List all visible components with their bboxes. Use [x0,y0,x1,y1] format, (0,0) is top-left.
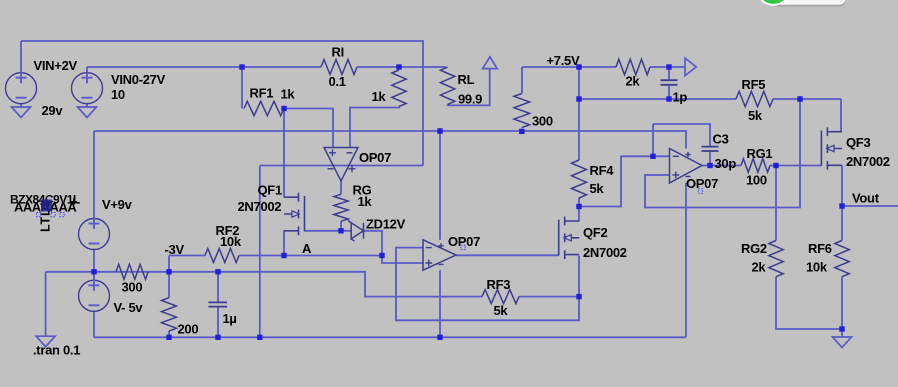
junction (842,206) [839,203,844,208]
svg-text:1k: 1k [358,194,373,209]
svg-text:RF5: RF5 [742,77,766,92]
ground under V1 [12,107,31,118]
wire RG node to zener [341,230,351,232]
svg-text:0.1: 0.1 [329,74,346,89]
svg-text:RF4: RF4 [590,163,615,178]
svg-text:A: A [302,241,312,256]
svg-text:VIN0-27V: VIN0-27V [111,72,166,87]
junction (579,206.5) [576,204,581,209]
wire net V- rail bottom [94,336,686,338]
wire V3-V4 junction leads [93,250,95,281]
wire x579 column [578,67,580,160]
wire RG2 bottom to gnd node [776,277,842,329]
svg-text:OP07: OP07 [359,150,391,165]
junction (341,230.8) [338,228,343,233]
wire net Vin2 rail y67 [87,66,446,68]
resistor RF6 10k [835,241,849,277]
junction (284,255.5) [281,253,286,258]
wire opamp2 V+ drop [439,131,441,240]
svg-text:29v: 29v [42,103,64,118]
wire net -3V rail y272 [46,272,482,297]
svg-text:.tran 0.1: .tran 0.1 [33,343,80,358]
wire QF1 drain riser [283,109,285,198]
resistor RF3 5k [482,290,519,304]
wire net V+ rail (VIN+2V) top [21,41,423,166]
wire QF2 drain node to opamp3 -in [579,156,670,221]
svg-text:200: 200 [178,322,199,337]
svg-text:QF3: QF3 [846,135,870,150]
junction (284,108.5) [281,106,286,111]
op-amp U2 OP07 [423,234,480,270]
svg-text:10k: 10k [220,234,242,249]
svg-text:5k: 5k [494,303,509,318]
junction (218,337.3) [215,335,220,340]
svg-text:RG2: RG2 [741,241,767,256]
svg-text:+7.5V: +7.5V [547,53,580,68]
wire opamp2 feedback loop [396,248,579,321]
resistor RF5 5k [736,91,773,106]
resistor RG2 2k [769,241,783,277]
port arrow up (RL) [483,57,498,69]
voltage source V1 VIN+2V 29v [6,72,37,104]
junction (579,67) [576,64,581,69]
capacitor C3 30p [702,147,719,151]
resistor RG1 100 [741,159,770,173]
wire 1p cap leads [668,67,670,99]
svg-text:2k: 2k [626,74,641,89]
capacitor 1u [208,302,227,306]
svg-text:QF1: QF1 [258,183,282,198]
wire 200 leads [168,272,170,338]
svg-text:5k: 5k [748,108,763,123]
svg-text:V- 5v: V- 5v [114,300,144,315]
svg-text:VIN+2V: VIN+2V [34,58,78,73]
svg-text:Vout: Vout [852,191,880,206]
wire V1 bottom lead [20,104,22,107]
wire RF6 bottom lead [841,277,843,329]
wire -3V corner [168,256,170,272]
wire 1k bottom to opamp1 -in [350,107,399,148]
svg-text:2N7002: 2N7002 [238,199,282,214]
wire opamp1 out lead [340,181,342,194]
svg-text:1µ: 1µ [223,311,237,326]
svg-text:C3: C3 [713,132,729,147]
svg-text:QF2: QF2 [583,225,607,240]
resistor 300 (left) [116,264,148,279]
resistor RF4 5k [572,160,587,198]
resistor RL 99.9 [440,67,454,104]
svg-text:10: 10 [111,87,125,102]
junction (669,99) [666,96,671,101]
wire V3 top lead [93,131,95,219]
wire QF1 gate to RG node [305,230,341,232]
svg-text:RL: RL [458,72,475,87]
wire opamp3 out to RG1 [702,165,741,167]
wire RF1 right to opamp1 +in [284,109,333,148]
svg-text:RF1: RF1 [250,86,274,101]
wire node A rail [169,255,382,257]
wire V1 top lead [20,41,22,73]
wire opamp2 V- drop [439,270,441,337]
resistor 1k (x399) [392,70,406,107]
voltage source V3 V+9v [79,218,110,250]
svg-text:5k: 5k [590,181,605,196]
capacitor 1p [661,80,678,85]
ground bottom-right [833,337,852,348]
svg-text:1k: 1k [281,87,296,102]
voltage source V2 VIN0-27V [72,72,103,104]
junction (653,156.3) [650,154,655,159]
wire RG1 to QF3 gate [770,165,821,167]
svg-text:2k: 2k [752,260,767,275]
green traffic-light button [761,0,787,5]
wire opamp2 out to QF2 gate [456,254,559,256]
wire RF6 top lead [841,206,843,241]
junction (259.8,337.3) [257,335,262,340]
wire 1u leads [217,272,219,338]
resistor RI 0.1 [321,60,357,75]
wire V4 bottom lead [93,311,95,337]
wire node A to opamp2 +in [382,256,423,264]
transistor QF1 2N7002 [284,193,305,235]
port arrow right (+7.5V) [685,58,696,76]
wire opamp3 +in feedback [645,99,800,208]
wire net +9V rail y131 [94,131,686,149]
wire net y99 rail [579,98,841,100]
resistor RG 1k [334,194,348,221]
svg-text:RF6: RF6 [808,241,832,256]
window overlay bar (top edge) [771,0,846,7]
svg-text:V+9v: V+9v [102,197,133,212]
wire QF1 source lead [283,231,285,256]
svg-text:1p: 1p [673,90,688,105]
junction (710,165.5) [707,163,712,168]
wire opamp3 V- drop [685,183,687,337]
svg-text:99.9: 99.9 [458,92,482,107]
svg-text:OP07: OP07 [448,234,480,249]
wire RF1 drop from rail [241,67,243,109]
transistor QF2 2N7002 [559,217,580,259]
svg-text:RF3: RF3 [487,277,511,292]
wire gnd right lead [841,329,843,337]
wire RG bottom lead [340,221,342,231]
wire net +7.5V rail [522,66,685,68]
svg-text:30p: 30p [715,156,737,171]
op-amp U3 OP07 [670,149,719,194]
junction (94,271.8) [91,269,96,274]
ground under V2 [78,107,97,118]
resistor RF2 10k [205,249,239,263]
junction (842,329) [839,326,844,331]
wire RF5 node to QF3 drain [840,99,842,132]
wire opamp1 power rail [260,165,423,167]
zener diode ZD12V [348,220,364,241]
wire RL bottom to up-port [448,69,490,106]
wire opamp3 compensation box [653,124,710,156]
junction (579,99) [576,96,581,101]
wire C3 bottom lead [709,152,711,166]
junction (440,337.3) [437,335,442,340]
overlapping text block BZX84C9V1L / AAAAAA / rotated LT 1 [10,193,80,233]
svg-text:-3V: -3V [165,242,185,257]
wire QF3 source to Vout [841,166,843,207]
op-amp U1 OP07 (output down) [324,148,391,182]
svg-text:1k: 1k [372,89,387,104]
junction (218,271.8) [215,269,220,274]
svg-text:300: 300 [122,280,143,295]
ground bottom-left (.tran) [36,336,55,347]
wire gnd left lead [45,272,47,336]
junction (169,337.3) [166,335,171,340]
wire RG1 node to RG2 [775,166,777,241]
junction (440,131) [437,128,442,133]
junction (382,255.5) [379,253,384,258]
resistor 200 [162,298,177,331]
wire 300b top corner [521,67,523,94]
wire RF3 right lead [519,296,579,298]
svg-text:2N7002: 2N7002 [583,245,627,260]
wire V2 top lead [86,67,88,73]
svg-text:RI: RI [332,45,344,60]
transistor QF3 2N7002 [821,127,842,169]
resistor 2k [616,59,650,75]
junction (242,67) [239,64,244,69]
svg-text:ZD12V: ZD12V [366,217,406,232]
svg-text:300: 300 [532,114,553,129]
wire zener anode to node A [364,231,383,256]
wire QF2 source lead [578,256,580,297]
junction (776,165.5) [773,163,778,168]
svg-text:100: 100 [746,173,767,188]
attribute marker squares (left block) [37,213,65,217]
junction (521.8,131.4) [519,129,524,134]
resistor RF1 1k [244,101,284,115]
junction (579,296.6) [576,294,581,299]
resistor 300 (+7.5V) [514,94,530,128]
svg-text:10k: 10k [806,260,828,275]
junction (169,271.8) [166,269,171,274]
wire net Vout [842,205,898,207]
voltage source V4 V-5v [79,280,110,312]
svg-text:+: + [70,194,78,209]
junction (669,67) [666,64,671,69]
wire opamp1 V- drop [259,166,261,338]
svg-text:RG1: RG1 [747,146,773,161]
wire V2 bottom lead [86,104,88,107]
junction (800,99) [797,96,802,101]
svg-text:2N7002: 2N7002 [846,154,890,169]
junction (399,67) [396,64,401,69]
